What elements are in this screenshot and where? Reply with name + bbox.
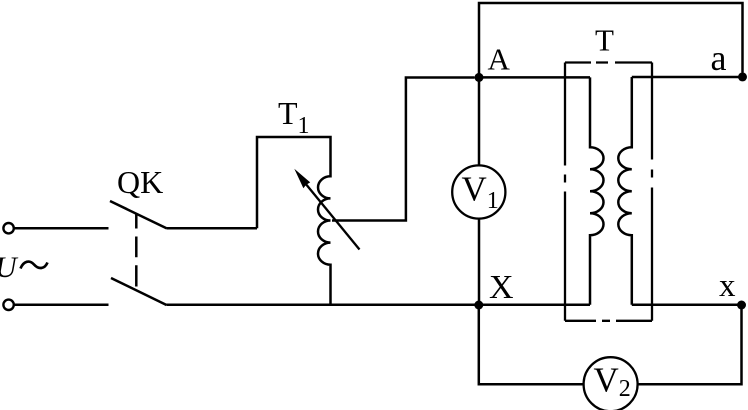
voltmeter V1 circle	[452, 165, 505, 218]
transformer T core top (dash-dot)	[565, 61, 652, 63]
voltmeter V2 circle	[584, 357, 638, 410]
wire top link A to a	[479, 3, 743, 77]
wire X to primary winding bottom	[479, 304, 590, 307]
transformer T core left limb (dash-dot)	[564, 63, 566, 321]
wire lower-left rail	[14, 304, 109, 307]
svg-text:x: x	[719, 268, 736, 304]
autotransformer T1 body	[257, 137, 331, 305]
svg-text:A: A	[488, 41, 511, 76]
terminal lower-left (source)	[3, 300, 13, 310]
node A junction dot	[475, 73, 484, 82]
terminal x dot	[737, 301, 746, 310]
transformer T core bottom (dash-dot)	[565, 320, 652, 322]
wire bottom bus	[167, 304, 478, 307]
svg-text:QK: QK	[117, 164, 163, 200]
T1 wiper arrowhead	[294, 169, 310, 188]
wire upper-left rail	[14, 227, 109, 230]
wire switch to T1	[167, 227, 257, 230]
wire secondary bottom to terminal x	[632, 304, 742, 307]
transformer secondary winding	[618, 77, 632, 305]
switch QK pole 1 blade	[110, 201, 167, 229]
wire secondary top to terminal a	[632, 76, 743, 79]
svg-text:X: X	[489, 269, 514, 306]
wire X down to V2	[479, 305, 584, 384]
svg-text:T: T	[595, 23, 614, 58]
switch QK pole 2 blade	[111, 278, 167, 305]
svg-text:a: a	[711, 38, 727, 78]
svg-text:U: U	[0, 251, 19, 284]
label U~ tilde	[21, 262, 48, 269]
wire T1 tap to A branch	[332, 78, 475, 221]
wire V2 to terminal x	[638, 305, 742, 384]
wire A down to V1	[478, 77, 481, 165]
transformer primary winding	[590, 77, 604, 304]
terminal a dot	[738, 72, 747, 81]
terminal upper-left (source)	[3, 223, 13, 233]
wire V1 down to X	[478, 219, 481, 305]
transformer T core right limb (dash-dot)	[651, 63, 653, 321]
T1 wiper arrow line	[305, 183, 360, 250]
switch QK linkage (dashed)	[135, 214, 138, 287]
wire A to primary winding	[479, 76, 590, 79]
node X junction dot	[474, 301, 483, 310]
